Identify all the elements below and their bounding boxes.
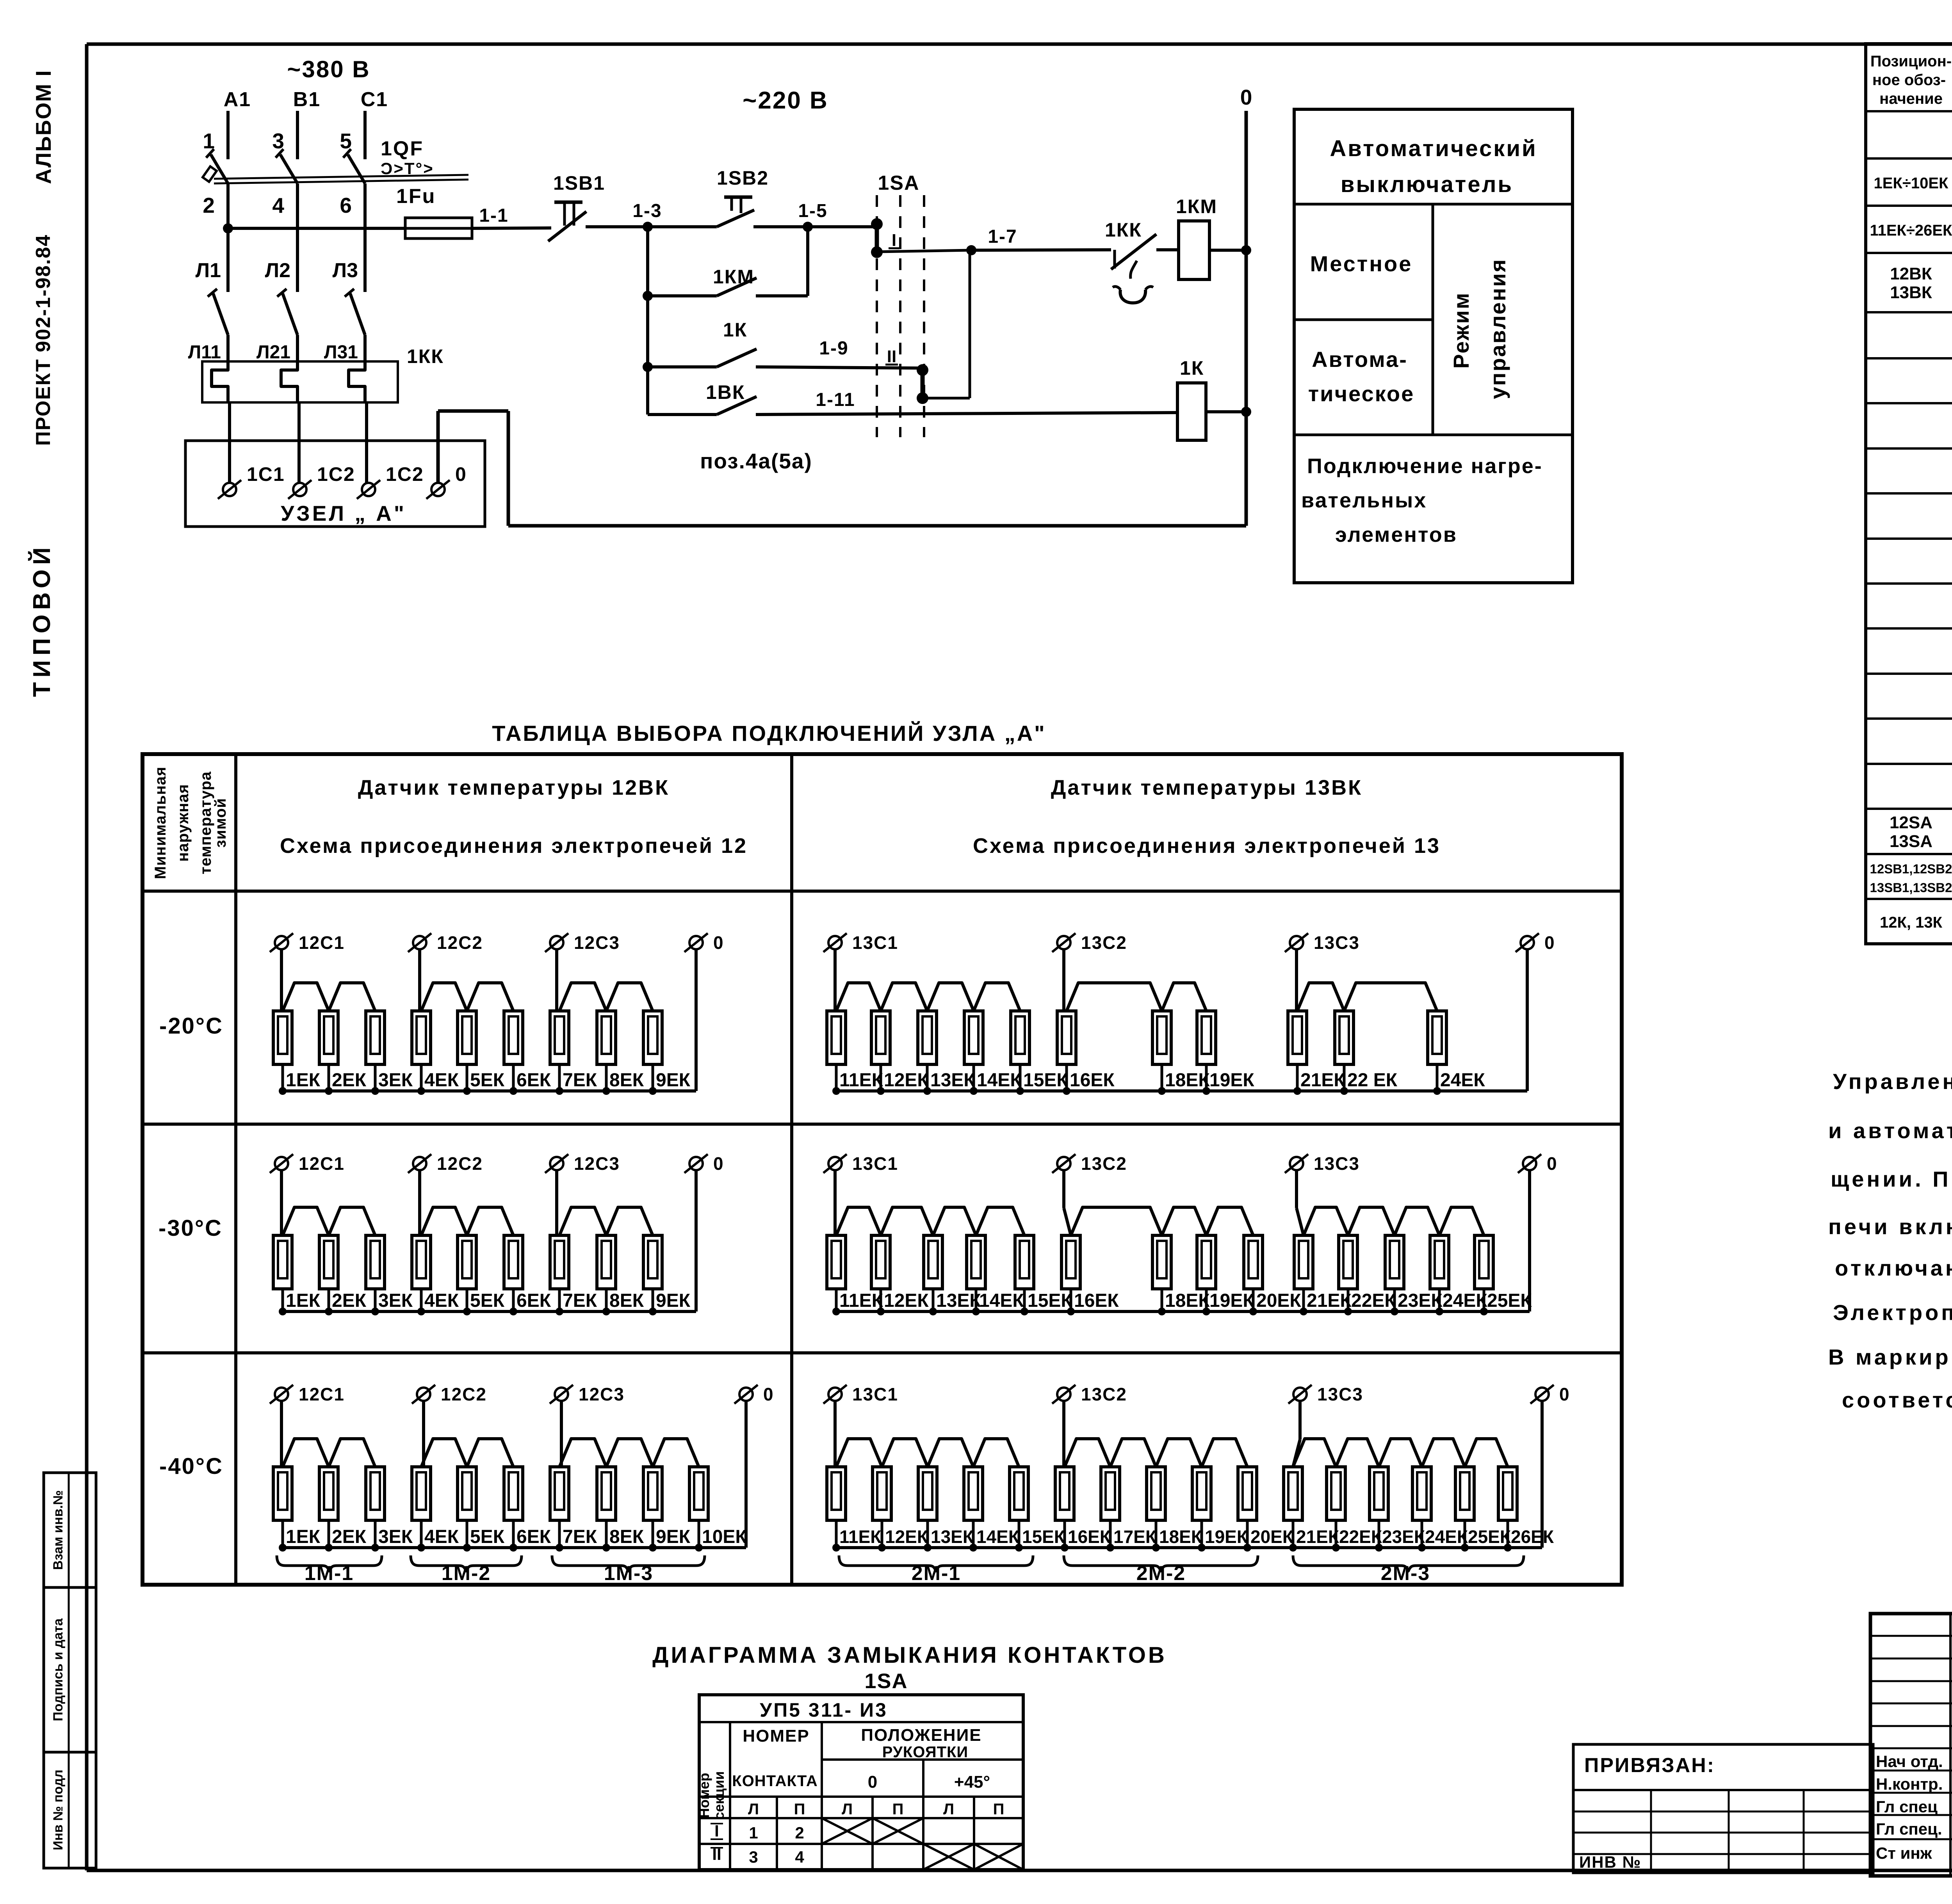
lead 20ЕК [1246, 1520, 1249, 1548]
info box divider middle horizontal [1294, 319, 1433, 321]
lead 6ЕК [512, 1520, 515, 1548]
jumper [1071, 1207, 1162, 1235]
jumper [974, 983, 1020, 1011]
heater 4ЕК [412, 1467, 431, 1520]
signature rows [1870, 1770, 1952, 1772]
svg-text:Ͻ>T°>: Ͻ>T°> [381, 159, 434, 178]
terminal 0 [739, 1388, 753, 1401]
svg-text:ТИПОВОЙ: ТИПОВОЙ [28, 543, 55, 697]
узел А box [185, 441, 485, 527]
stamp box: Взам инв.№ [44, 1473, 96, 1587]
svg-text:2ЕК: 2ЕК [332, 1070, 367, 1091]
svg-text:12С3: 12С3 [574, 1153, 620, 1174]
svg-text:I: I [714, 1822, 719, 1840]
terminal 13С2 [1057, 1157, 1070, 1170]
lead 6ЕК [512, 1064, 515, 1091]
wire to coil 1КМ [1165, 248, 1179, 251]
lead 12ЕК [881, 1520, 883, 1548]
lead 10ЕК [698, 1520, 700, 1548]
svg-text:16ЕК: 16ЕК [1070, 1070, 1115, 1091]
feed wire 12С1 [280, 1401, 283, 1468]
feed wire 12С3 [560, 1401, 563, 1468]
svg-text:0: 0 [713, 1153, 724, 1174]
svg-text:9ЕК: 9ЕК [656, 1527, 691, 1547]
svg-text:13С1: 13С1 [852, 932, 898, 953]
svg-text:П: П [794, 1801, 805, 1818]
stamp box: Инв № подл [44, 1752, 96, 1868]
svg-text:Л3: Л3 [333, 259, 358, 282]
svg-text:18ЕК: 18ЕК [1165, 1290, 1210, 1311]
svg-text:В маркировке индекс „1" за: В маркировке индекс „1" заменяется номер… [1828, 1345, 1952, 1369]
node 1-5 [803, 222, 813, 232]
heater 11ЕК [827, 1235, 846, 1289]
lead 9ЕК [652, 1064, 654, 1091]
svg-text:~380 В: ~380 В [287, 56, 370, 82]
jumper [1465, 1439, 1508, 1467]
svg-text:НОМЕР: НОМЕР [743, 1726, 809, 1746]
wire to узел А [228, 402, 231, 483]
svg-text:19ЕК: 19ЕК [1205, 1527, 1248, 1547]
lead 13ЕК [926, 1064, 929, 1091]
heater 10ЕК [689, 1467, 708, 1520]
lead 17ЕК [1109, 1520, 1112, 1548]
svg-text:В1: В1 [293, 88, 321, 111]
wire to node 1-5 [753, 225, 808, 228]
heater 8ЕК [597, 1235, 616, 1289]
heater 20ЕК [1244, 1235, 1263, 1289]
feed wire 13С1 [834, 1170, 837, 1237]
jumper [836, 983, 881, 1011]
terminal 13С3 [1293, 1388, 1307, 1401]
svg-text:отключаются.: отключаются. [1835, 1256, 1952, 1280]
terminal 12С1 [275, 936, 288, 949]
lead 2ЕК [328, 1289, 330, 1311]
heater 7ЕК [550, 1235, 569, 1289]
heater 2ЕК [319, 1011, 338, 1064]
heater 12ЕК [871, 1011, 890, 1064]
svg-text:14ЕК: 14ЕК [979, 1290, 1024, 1311]
sheet frame [87, 43, 1952, 46]
jumper [1110, 1439, 1156, 1467]
lead 4ЕК [420, 1064, 423, 1091]
svg-text:Местное: Местное [1310, 251, 1413, 276]
svg-text:0: 0 [1559, 1384, 1570, 1404]
svg-text:0: 0 [763, 1384, 774, 1404]
heater 26ЕК [1498, 1467, 1517, 1520]
jumper [973, 1439, 1019, 1467]
svg-text:Подпись и дата: Подпись и дата [51, 1618, 66, 1721]
jumper [927, 983, 974, 1011]
jumper [467, 1207, 513, 1235]
svg-text:1QF: 1QF [381, 137, 424, 160]
svg-text:24ЕК: 24ЕК [1443, 1290, 1487, 1311]
brace 1М-2 [411, 1555, 522, 1571]
lead 15ЕК [1019, 1064, 1022, 1091]
jumper [1202, 1439, 1247, 1467]
lead 8ЕК [605, 1520, 608, 1548]
svg-text:12С3: 12С3 [574, 932, 620, 953]
lead 7ЕК [558, 1289, 561, 1311]
heater 4ЕК [412, 1011, 431, 1064]
lead 4ЕК [420, 1520, 423, 1548]
heater 19ЕК [1197, 1235, 1216, 1289]
jumper [1067, 983, 1162, 1011]
heater 6ЕК [504, 1235, 523, 1289]
wire to узел А [297, 402, 301, 483]
svg-text:Взам инв.№: Взам инв.№ [51, 1490, 66, 1570]
terminal 12С3 [550, 1157, 563, 1170]
svg-text:1К: 1К [1180, 357, 1204, 379]
svg-text:1М-1: 1М-1 [305, 1562, 354, 1585]
svg-text:12ЕК: 12ЕК [884, 1070, 929, 1091]
svg-text:Электропечи необходимо занул: Электропечи необходимо занулить. [1833, 1300, 1952, 1325]
svg-text:13SB1,13SB2: 13SB1,13SB2 [1870, 881, 1952, 895]
svg-text:8ЕК: 8ЕК [609, 1527, 644, 1547]
terminal 12С3 [555, 1388, 568, 1401]
svg-text:19ЕК: 19ЕК [1209, 1070, 1254, 1091]
parts table frame [1866, 44, 1952, 944]
svg-text:выключатель: выключатель [1341, 172, 1513, 197]
jumper [421, 1439, 467, 1467]
heater 3ЕК [366, 1235, 385, 1289]
feed wire 13С2 [1062, 1401, 1065, 1468]
heater 18ЕК [1152, 1011, 1171, 1064]
lead 16ЕК [1065, 1064, 1068, 1091]
lead 4ЕК [420, 1289, 423, 1311]
node 1-3 [643, 222, 653, 232]
svg-text:1-11: 1-11 [816, 390, 855, 410]
svg-text:13ВК: 13ВК [1890, 283, 1932, 302]
svg-text:12С2: 12С2 [437, 1153, 483, 1174]
parts table row line [1866, 205, 1952, 207]
svg-text:II: II [887, 347, 896, 366]
lead 2ЕК [328, 1520, 330, 1548]
lead 13ЕК [926, 1520, 929, 1548]
svg-text:Датчик температуры 12ВК: Датчик температуры 12ВК [358, 776, 670, 799]
neutral return wire [508, 524, 1246, 528]
svg-text:13ЕК: 13ЕК [930, 1070, 975, 1091]
svg-text:начение: начение [1879, 90, 1943, 107]
svg-text:13ЕК: 13ЕК [931, 1527, 974, 1547]
terminal 13С1 [828, 1157, 842, 1170]
svg-text:13С2: 13С2 [1081, 1384, 1127, 1404]
jumper [559, 1439, 606, 1467]
title block frame [1870, 1614, 1952, 1876]
jumper [882, 1439, 928, 1467]
parts table row line [1866, 402, 1952, 404]
heater 8ЕК [597, 1011, 616, 1064]
svg-text:21ЕК: 21ЕК [1300, 1070, 1345, 1091]
jumper [1422, 1439, 1465, 1467]
heater 6ЕК [504, 1467, 523, 1520]
heater 24ЕК [1428, 1011, 1446, 1064]
jumper [1304, 1207, 1348, 1235]
heater 24ЕК [1430, 1235, 1449, 1289]
jumper [1162, 983, 1206, 1011]
svg-text:24ЕК: 24ЕК [1440, 1070, 1485, 1091]
svg-text:Режим: Режим [1449, 292, 1473, 369]
svg-text:Л11: Л11 [188, 342, 221, 363]
jumper [1336, 1439, 1379, 1467]
svg-text:печи включаются, а при пов: печи включаются, а при повышении выше +7… [1828, 1214, 1952, 1239]
jumper [606, 1439, 653, 1467]
terminal 12С2 [413, 936, 426, 949]
lead 23ЕК [1393, 1289, 1396, 1311]
svg-text:1М-2: 1М-2 [442, 1562, 491, 1585]
svg-text:АЛЬБОМ I: АЛЬБОМ I [31, 69, 55, 184]
heater 21ЕК [1284, 1467, 1302, 1520]
svg-text:~220 В: ~220 В [743, 87, 828, 114]
jumper [1379, 1439, 1422, 1467]
parts table row line [1866, 763, 1952, 765]
lead 13ЕК [932, 1289, 935, 1311]
svg-text:13С3: 13С3 [1314, 932, 1360, 953]
svg-text:25ЕК: 25ЕК [1487, 1290, 1532, 1311]
heater 3ЕК [366, 1011, 385, 1064]
lead 22ЕК [1347, 1289, 1350, 1311]
lead 18ЕК [1161, 1064, 1163, 1091]
heater 15ЕК [1010, 1467, 1028, 1520]
svg-text:I: I [892, 231, 896, 250]
svg-text:С1: С1 [361, 88, 388, 111]
svg-text:6ЕК: 6ЕК [516, 1290, 551, 1311]
svg-text:2ЕК: 2ЕК [332, 1527, 367, 1547]
svg-text:и автоматическое в зависим: и автоматическое в зависимости от темпер… [1828, 1118, 1952, 1143]
svg-text:Н.контр.: Н.контр. [1876, 1775, 1943, 1793]
terminal 12С2 [417, 1388, 430, 1401]
X mark I-0-П [873, 1818, 923, 1844]
contact row I [699, 1843, 1023, 1845]
svg-text:4: 4 [795, 1848, 804, 1866]
heater 25ЕК [1475, 1235, 1493, 1289]
terminal 13С3 [1290, 936, 1303, 949]
breaker 1QF pole С1 blade [348, 155, 365, 183]
heater 9ЕК [643, 1235, 662, 1289]
heater 2ЕК [319, 1235, 338, 1289]
svg-text:1-1: 1-1 [479, 205, 508, 226]
svg-text:Гл спец: Гл спец [1876, 1797, 1938, 1816]
X mark II-45-Л [923, 1844, 974, 1870]
svg-text:8ЕК: 8ЕК [609, 1070, 644, 1091]
heater 24ЕК [1412, 1467, 1431, 1520]
svg-text:Л2: Л2 [265, 259, 290, 282]
heater 12ЕК [873, 1467, 891, 1520]
fuse 1FU [405, 218, 472, 238]
lead 24ЕК [1438, 1289, 1441, 1311]
X mark I-0-Л [822, 1818, 873, 1844]
svg-text:УП5 311- И3: УП5 311- И3 [760, 1699, 888, 1721]
terminal 12С3 [550, 936, 563, 949]
svg-text:вательных: вательных [1301, 489, 1427, 512]
selection table row divider 2 [142, 1351, 1622, 1354]
brace 2М-2 [1064, 1555, 1258, 1571]
brace 2М-1 [839, 1555, 1033, 1571]
selection table column divider A [234, 754, 237, 1585]
brace 1М-1 [277, 1555, 382, 1571]
heater 7ЕК [550, 1467, 569, 1520]
phase С1 lead to contactor [363, 183, 367, 292]
svg-text:6: 6 [340, 193, 352, 217]
lead 22ЕК [1335, 1520, 1338, 1548]
svg-text:14ЕК: 14ЕК [976, 1527, 1020, 1547]
svg-text:П: П [892, 1801, 904, 1818]
selection table frame [142, 754, 1622, 1585]
svg-text:управления: управления [1485, 258, 1510, 399]
lead 24ЕК [1436, 1064, 1439, 1091]
svg-text:21ЕК: 21ЕК [1296, 1527, 1339, 1547]
svg-text:Управление электроотоплением: Управление электроотоплением предусматри… [1833, 1069, 1952, 1094]
parts table row line [1866, 808, 1952, 810]
feed wire 13С3 [1295, 949, 1298, 1013]
selection table row divider 1 [142, 1123, 1622, 1126]
contactor 1КМ power contact С1 [350, 294, 365, 335]
parts table row line [1866, 898, 1952, 900]
info box divider above bottom [1294, 434, 1573, 436]
junction phase A to control [223, 223, 233, 233]
feed wire 12С3 [555, 1170, 558, 1237]
jumper [1156, 1439, 1202, 1467]
svg-text:12К, 13К: 12К, 13К [1880, 914, 1943, 931]
svg-text:1ЕК: 1ЕК [286, 1290, 321, 1311]
lead 24ЕК [1421, 1520, 1423, 1548]
parts table row line [1866, 853, 1952, 855]
svg-text:поз.4а(5а): поз.4а(5а) [700, 449, 812, 473]
svg-text:Автоматический: Автоматический [1330, 136, 1537, 161]
heater 5ЕК [458, 1467, 476, 1520]
svg-text:0: 0 [1240, 85, 1252, 109]
heater 6ЕК [504, 1011, 523, 1064]
contact table frame [699, 1695, 1023, 1870]
svg-text:7ЕК: 7ЕК [563, 1290, 597, 1311]
svg-text:3ЕК: 3ЕК [378, 1527, 413, 1547]
svg-text:секции: секции [711, 1771, 727, 1820]
svg-text:6ЕК: 6ЕК [516, 1527, 551, 1547]
jumper [836, 1439, 882, 1467]
svg-text:соответственно.: соответственно. [1842, 1388, 1952, 1412]
svg-text:15ЕК: 15ЕК [1028, 1290, 1072, 1311]
jumper [467, 1439, 513, 1467]
neutral rail [283, 1089, 696, 1093]
svg-text:12С1: 12С1 [299, 932, 345, 953]
heater 23ЕК [1385, 1235, 1404, 1289]
X mark II-45-П [974, 1844, 1023, 1870]
feed wire 13С3 [1298, 1401, 1302, 1440]
svg-text:23ЕК: 23ЕК [1382, 1527, 1425, 1547]
heater 9ЕК [643, 1011, 662, 1064]
svg-text:щении. При понижении темпер: щении. При понижении температуры ниже +3… [1831, 1167, 1952, 1191]
svg-text:1С2: 1С2 [317, 463, 355, 485]
svg-text:22ЕК: 22ЕК [1351, 1290, 1396, 1311]
svg-text:ПРИВЯЗАН:: ПРИВЯЗАН: [1584, 1754, 1715, 1777]
lead 1ЕК [281, 1520, 284, 1548]
svg-text:1ЕК: 1ЕК [286, 1527, 321, 1547]
wire 1-9 [756, 367, 923, 368]
svg-text:2М-3: 2М-3 [1381, 1562, 1430, 1585]
parts table row line [1866, 447, 1952, 450]
узел А terminal 1С2 [293, 483, 306, 496]
lead 25ЕК [1464, 1520, 1466, 1548]
svg-text:1SB2: 1SB2 [717, 167, 769, 189]
neutral rail [836, 1089, 1527, 1093]
lead 14ЕК [972, 1520, 975, 1548]
heater 17ЕК [1101, 1467, 1120, 1520]
svg-text:0: 0 [1544, 932, 1555, 953]
svg-text:12ЕК: 12ЕК [884, 1290, 929, 1311]
lead 8ЕК [605, 1064, 608, 1091]
parts table row line [1866, 110, 1952, 112]
svg-text:12ВК: 12ВК [1890, 264, 1932, 283]
svg-text:0: 0 [455, 463, 467, 485]
svg-text:24ЕК: 24ЕК [1425, 1527, 1468, 1547]
узел А terminal 1С1 [223, 483, 236, 496]
wire to узел А [365, 402, 368, 483]
jumper [606, 1207, 653, 1235]
svg-text:16ЕК: 16ЕК [1068, 1527, 1111, 1547]
jumper [283, 1207, 329, 1235]
terminal 0 [1535, 1388, 1549, 1401]
lead 22 ЕК [1343, 1064, 1346, 1091]
svg-text:25ЕК: 25ЕК [1468, 1527, 1511, 1547]
heater 25ЕК [1455, 1467, 1474, 1520]
svg-text:10ЕК: 10ЕК [702, 1527, 747, 1547]
heater 11ЕК [827, 1467, 846, 1520]
svg-text:17ЕК: 17ЕК [1113, 1527, 1157, 1547]
svg-text:ное обоз-: ное обоз- [1872, 71, 1946, 89]
jumper [283, 1439, 329, 1467]
svg-text:19ЕК: 19ЕК [1209, 1290, 1254, 1311]
terminal 13С3 [1290, 1157, 1303, 1170]
jumper [329, 983, 375, 1011]
lead 5ЕК [466, 1520, 468, 1548]
svg-text:13С1: 13С1 [852, 1153, 898, 1174]
heater 1ЕК [273, 1235, 292, 1289]
svg-text:12ЕК: 12ЕК [885, 1527, 928, 1547]
svg-text:12С3: 12С3 [579, 1384, 625, 1404]
selection table header underline [142, 890, 1622, 893]
svg-text:-30°С: -30°С [159, 1215, 223, 1241]
heater 9ЕК [643, 1467, 662, 1520]
svg-text:4: 4 [272, 193, 284, 217]
parts table row line [1866, 673, 1952, 675]
jumper [1395, 1207, 1439, 1235]
neutral rail [836, 1310, 1530, 1313]
svg-text:Л: Л [943, 1801, 954, 1818]
svg-text:5ЕК: 5ЕК [470, 1290, 505, 1311]
svg-text:-40°С: -40°С [159, 1454, 223, 1479]
svg-text:9ЕК: 9ЕК [656, 1290, 691, 1311]
heater 1ЕК [273, 1467, 292, 1520]
svg-text:+45°: +45° [954, 1772, 990, 1792]
terminal 13С2 [1057, 936, 1070, 949]
jumper [1206, 1207, 1253, 1235]
terminal 12С2 [413, 1157, 426, 1170]
parts table row line [1866, 627, 1952, 630]
phase А1 lead to contactor [226, 183, 230, 292]
svg-text:1-9: 1-9 [819, 338, 848, 359]
svg-text:7ЕК: 7ЕК [563, 1527, 597, 1547]
info box divider under header [1294, 203, 1573, 206]
svg-text:Л: Л [748, 1801, 759, 1818]
jumper [1162, 1207, 1206, 1235]
lead 11ЕК [835, 1289, 838, 1311]
svg-text:Номер: Номер [696, 1773, 712, 1818]
lead 19ЕК [1205, 1289, 1208, 1311]
svg-text:тическое: тическое [1308, 381, 1415, 406]
lead 6ЕК [512, 1289, 515, 1311]
lead 15ЕК [1018, 1520, 1021, 1548]
parts table row line [1866, 157, 1952, 160]
svg-text:1: 1 [749, 1824, 758, 1842]
